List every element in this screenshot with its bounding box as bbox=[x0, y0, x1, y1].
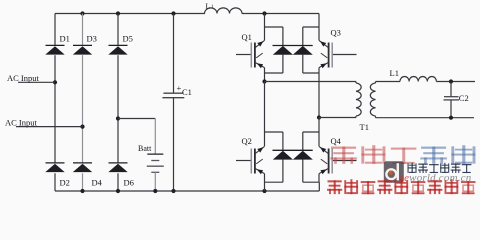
node output bottom / C2 bbox=[449, 116, 453, 120]
node bridge right midpoint bbox=[317, 115, 321, 119]
svg-text:C1: C1 bbox=[182, 87, 192, 97]
diode D5 bbox=[108, 34, 133, 55]
transistor Q1 bbox=[236, 32, 265, 68]
watermark url eeworld bbox=[399, 172, 472, 184]
diode D9 (Q2 antiparallel) bbox=[273, 150, 313, 159]
wire Q2 diode branch top bbox=[265, 132, 283, 150]
wire Q1 diode branch top bbox=[265, 27, 283, 46]
transistor Q2 bbox=[236, 136, 265, 174]
wire AC input 2 bbox=[16, 126, 83, 128]
wire D2 column lower bbox=[54, 173, 56, 191]
svg-text:D3: D3 bbox=[87, 34, 97, 44]
wire C1 column upper bbox=[173, 14, 175, 94]
wire D7 anode bracket bbox=[265, 55, 283, 73]
svg-text:D6: D6 bbox=[124, 178, 134, 188]
diode D2 bbox=[45, 163, 64, 172]
svg-text:D5: D5 bbox=[123, 34, 133, 44]
wire Q3 diode branch top bbox=[303, 27, 319, 46]
wire L1 to output top bbox=[436, 81, 475, 83]
wire battery branch vertical bbox=[154, 119, 156, 155]
wire bottom rail bbox=[55, 190, 319, 192]
wire Q2 source to bottom rail bbox=[264, 174, 266, 191]
node bottom rail / C1 column bbox=[171, 189, 175, 193]
node bottom rail / battery bbox=[153, 189, 157, 193]
node top rail / D5 column bbox=[116, 11, 120, 15]
wire tap to Q4 drain bbox=[318, 118, 320, 147]
label AC Input 1 bbox=[7, 73, 40, 83]
inductor L1 output bbox=[390, 68, 437, 82]
transformer T1 secondary winding bbox=[370, 82, 375, 118]
wire D1-D2 column middle bbox=[54, 55, 56, 163]
svg-text:D4: D4 bbox=[92, 178, 103, 188]
node bottom rail / D3 column bbox=[80, 189, 84, 193]
wire D10 anode bracket bbox=[303, 159, 320, 182]
svg-text:Q3: Q3 bbox=[331, 28, 341, 38]
wire AC input 1 bbox=[18, 81, 55, 83]
watermark logo eediot bbox=[384, 161, 404, 182]
wire Q4 source column bbox=[318, 174, 320, 183]
wire Q3 drain column bbox=[318, 14, 320, 41]
watermark text eeworld cn bbox=[408, 163, 472, 173]
wire Q3 source to tap bbox=[318, 68, 320, 118]
node top rail / D3 column bbox=[80, 11, 84, 15]
wire battery branch horizontal bbox=[118, 118, 155, 120]
svg-text:C2: C2 bbox=[459, 93, 469, 103]
label AC Input 2 bbox=[5, 118, 38, 128]
wire left midpoint to transformer bbox=[265, 81, 357, 83]
battery Batt bbox=[147, 154, 164, 172]
wire top rail right segment bbox=[242, 13, 319, 15]
diode D4 bbox=[73, 163, 92, 172]
diode D7 (Q1 antiparallel) bbox=[273, 46, 313, 55]
node battery branch junction bbox=[116, 116, 120, 120]
wire top rail left segment bbox=[55, 13, 205, 15]
wire battery to bottom rail bbox=[154, 172, 156, 191]
label D4 bbox=[92, 178, 103, 188]
svg-text:L: L bbox=[206, 2, 211, 11]
wire C2 column lower bbox=[450, 100, 452, 118]
transistor Q3 bbox=[319, 28, 357, 69]
svg-text:1: 1 bbox=[211, 5, 214, 10]
label Batt bbox=[138, 144, 152, 153]
svg-text:AC Input: AC Input bbox=[7, 73, 40, 83]
wire D8 anode bracket bbox=[303, 55, 319, 73]
label D6 bbox=[124, 178, 134, 188]
wire Q4 diode branch top bbox=[303, 132, 319, 150]
watermark big text yiditop training bbox=[330, 145, 475, 164]
node bottom rail / Q2 source bbox=[262, 189, 266, 193]
watermark red text rf antenna design expert bbox=[327, 179, 475, 194]
wire secondary bottom to output bbox=[376, 117, 475, 119]
label D2 bbox=[60, 178, 70, 188]
wire transformer primary bottom stub bbox=[355, 116, 357, 118]
diode D3 bbox=[73, 34, 97, 55]
inductor L1 boost (top) bbox=[205, 2, 243, 14]
svg-text:T1: T1 bbox=[360, 122, 369, 132]
node top rail / C1 column bbox=[171, 11, 175, 15]
node top rail / Q1 drain bbox=[262, 11, 266, 15]
wire secondary top to L1 bbox=[376, 81, 401, 83]
wire D6 column lower bbox=[117, 173, 119, 191]
svg-text:L1: L1 bbox=[390, 68, 399, 78]
wire D9 anode bracket bbox=[265, 159, 283, 182]
svg-text:D2: D2 bbox=[60, 178, 70, 188]
wire right leg bottom corner bbox=[318, 182, 320, 191]
capacitor C2 bbox=[444, 93, 469, 103]
wire D3-D4 column middle bbox=[82, 55, 84, 163]
svg-text:Q2: Q2 bbox=[242, 136, 252, 146]
svg-text:Batt: Batt bbox=[138, 144, 152, 153]
wire D5-D6 column middle bbox=[117, 55, 119, 163]
svg-text:+: + bbox=[177, 83, 182, 93]
wire Q1 source to midpoint bbox=[264, 68, 266, 82]
wire D3 column upper bbox=[82, 14, 84, 46]
svg-text:D1: D1 bbox=[60, 34, 70, 44]
capacitor C1 bbox=[162, 83, 192, 98]
label T1 bbox=[360, 122, 369, 132]
wire C1 column lower bbox=[173, 98, 175, 191]
svg-text:Q4: Q4 bbox=[331, 136, 342, 146]
wire midpoint to Q2 drain bbox=[264, 82, 266, 147]
wire primary bottom to right midpoint bbox=[319, 117, 356, 119]
wire Q1 drain column bbox=[264, 14, 266, 41]
diode D6 bbox=[108, 163, 127, 172]
diode D1 bbox=[45, 34, 70, 55]
node bridge left midpoint bbox=[262, 79, 266, 83]
node AC input 2 junction bbox=[80, 125, 84, 129]
wire D4 column lower bbox=[82, 173, 84, 191]
node AC input 1 junction bbox=[53, 80, 57, 84]
transformer T1 primary winding bbox=[356, 83, 361, 116]
transistor Q4 bbox=[319, 136, 357, 174]
wire transformer primary top stub bbox=[355, 82, 357, 84]
node bottom rail / D5 column bbox=[116, 189, 120, 193]
node output top / C2 bbox=[449, 79, 453, 83]
wire D1 column upper bbox=[54, 14, 56, 46]
svg-text:Q1: Q1 bbox=[242, 32, 252, 42]
wire C2 column upper bbox=[450, 82, 452, 97]
wire D5 column upper bbox=[117, 14, 119, 46]
